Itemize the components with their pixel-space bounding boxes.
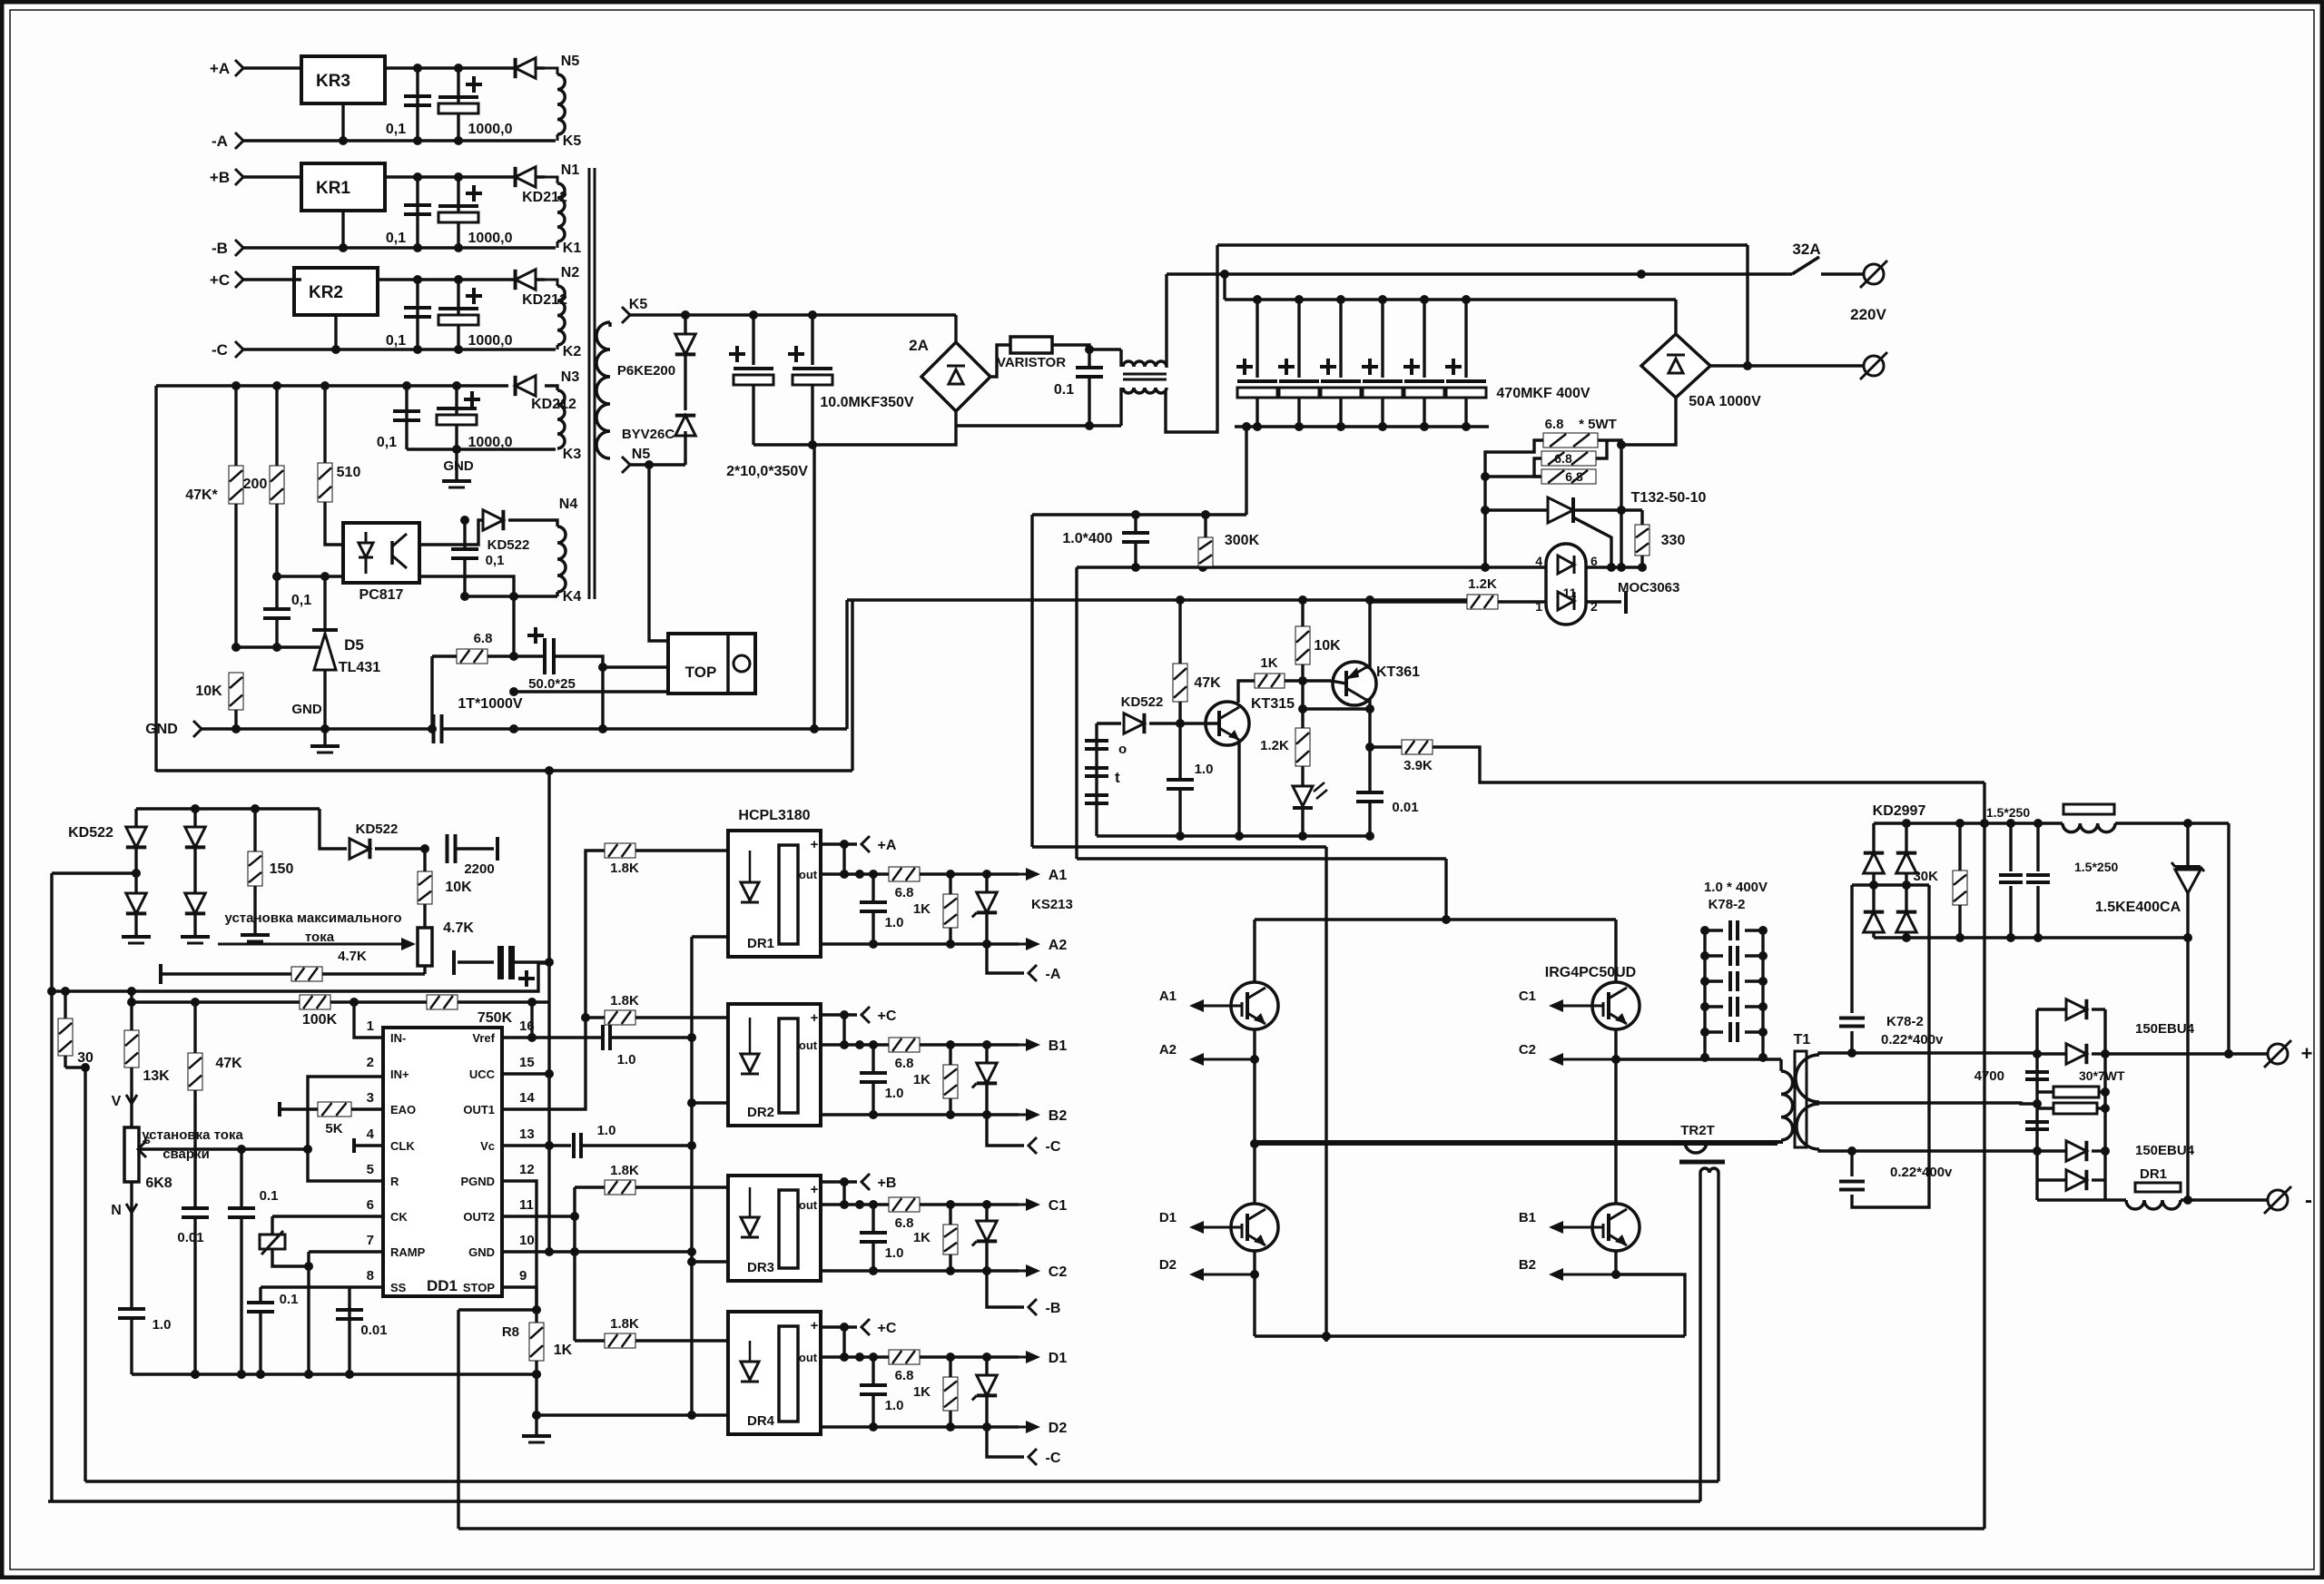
svg-text:0.1: 0.1: [260, 1188, 279, 1204]
svg-text:1.5*250: 1.5*250: [1986, 805, 2030, 820]
svg-text:1.2K: 1.2K: [1260, 738, 1289, 753]
arrow D1: [1019, 1356, 1028, 1359]
wire pin6: [272, 1215, 383, 1217]
transistor KT315: [1206, 702, 1249, 745]
wire pgnd drop: [458, 1308, 537, 1311]
svg-text:A2: A2: [1159, 1042, 1177, 1058]
diode BYV26C: [684, 355, 686, 410]
wire aux dc bus: [136, 807, 320, 810]
svg-text:0.1: 0.1: [1054, 382, 1074, 398]
svg-text:out: out: [799, 1198, 818, 1212]
capacitor 0.1: [240, 1149, 242, 1207]
driver DR3 HCPL3180: [728, 1176, 821, 1281]
wire gate: [920, 1355, 1019, 1358]
svg-text:1.0: 1.0: [885, 1245, 904, 1261]
resistor 13K: [124, 1030, 139, 1067]
svg-text:K5: K5: [563, 133, 582, 149]
gate arrow C2: [1561, 1058, 1616, 1061]
wire: [1253, 1274, 1256, 1336]
wire cap bank top bus: [1225, 298, 1676, 300]
wire: [1223, 274, 1226, 300]
wire stack: [1598, 440, 1621, 445]
resistor 6.8 b: [1541, 451, 1596, 466]
wire out2 feed: [573, 1187, 576, 1341]
input arrow -KR2: [235, 341, 243, 358]
capacitor 1000,0: [457, 280, 459, 349]
wire primary top: [1616, 1058, 1781, 1060]
svg-text:STOP: STOP: [463, 1281, 495, 1294]
wire out DR3: [821, 1203, 889, 1205]
svg-text:510: 510: [337, 465, 361, 480]
wire pin3: [277, 575, 343, 577]
capacitor 1.0*400: [1134, 515, 1137, 532]
capacitor lower: [2025, 1120, 2049, 1124]
svg-text:A1: A1: [1049, 868, 1068, 883]
svg-text:KD522: KD522: [356, 822, 399, 837]
svg-text:KT315: KT315: [1251, 696, 1295, 712]
snubber capacitor: [1705, 1005, 1723, 1008]
wire bottom: [956, 424, 1121, 427]
wire: [385, 175, 545, 178]
svg-text:IRG4PC50UD: IRG4PC50UD: [1545, 965, 1636, 980]
svg-text:6.8: 6.8: [895, 1215, 914, 1231]
wire: [1620, 445, 1622, 567]
snubber capacitor: [1705, 1030, 1723, 1033]
svg-text:0.22*400v: 0.22*400v: [1890, 1165, 1953, 1180]
wire: [514, 690, 668, 693]
wire: [385, 66, 545, 69]
capacitor 470MKF C4: [1381, 300, 1384, 378]
arrow B1: [1019, 1044, 1028, 1047]
diode KD522: [320, 809, 347, 849]
svg-text:1K: 1K: [913, 1384, 931, 1400]
svg-text:47K: 47K: [1194, 675, 1221, 691]
svg-text:+: +: [811, 1010, 819, 1026]
svg-text:+B: +B: [878, 1176, 897, 1191]
wire pin13 vc: [502, 1144, 571, 1146]
terminal bar: [1624, 591, 1628, 614]
svg-text:1000,0: 1000,0: [468, 122, 513, 137]
wire: [325, 502, 343, 545]
resistor 10K: [1301, 600, 1304, 626]
wire: [378, 278, 545, 280]
svg-text:out: out: [799, 1038, 818, 1052]
wire emitter DR4: [821, 1425, 1019, 1428]
resistor 6.8 DR3: [889, 1197, 920, 1212]
svg-text:N3: N3: [561, 369, 580, 385]
capacitor 0.01: [1368, 709, 1371, 792]
wire pin8: [261, 1285, 383, 1288]
wire: [692, 1260, 728, 1263]
svg-text:-C: -C: [212, 341, 228, 359]
wire: [845, 600, 848, 729]
input arrow +KR2: [235, 271, 243, 288]
svg-text:4: 4: [367, 1127, 375, 1142]
winding N5/K5: [545, 68, 557, 74]
svg-text:1.8K: 1.8K: [610, 1163, 639, 1178]
varistor: [990, 345, 1010, 377]
diode pair col1: [134, 809, 137, 935]
wire plus rail: [2227, 823, 2230, 1054]
capacitor 10,0 350V b: [811, 315, 813, 365]
svg-text:N: N: [111, 1203, 122, 1218]
wire: [842, 1327, 845, 1357]
svg-text:D1: D1: [1049, 1351, 1068, 1366]
svg-text:UCC: UCC: [469, 1067, 496, 1081]
wire: [1444, 859, 1447, 920]
wire supply +B: [821, 1180, 857, 1183]
wire gnd bus: [202, 727, 432, 730]
svg-text:V: V: [112, 1094, 122, 1109]
svg-text:470MKF 400V: 470MKF 400V: [1496, 386, 1590, 401]
snubber capacitor: [1705, 979, 1723, 982]
input arrow -KR3: [235, 133, 243, 149]
svg-text:Vc: Vc: [480, 1139, 495, 1153]
svg-text:KD522: KD522: [487, 537, 530, 553]
diode 150EBU4 a1: [2037, 1008, 2066, 1010]
svg-text:тока: тока: [305, 930, 335, 945]
svg-text:1.5*250: 1.5*250: [2074, 860, 2118, 874]
svg-text:K1: K1: [563, 241, 582, 256]
svg-text:t: t: [1115, 769, 1120, 786]
svg-text:0,1: 0,1: [291, 593, 311, 608]
svg-text:N1: N1: [561, 162, 580, 178]
svg-text:6.8: 6.8: [1565, 469, 1583, 484]
wire pin11 out2: [502, 1215, 575, 1217]
zener KS213 DR2: [985, 1045, 988, 1063]
ic DD1: [383, 1028, 502, 1296]
capacitor 470MKF C3: [1339, 300, 1342, 378]
svg-text:0.1: 0.1: [280, 1292, 299, 1307]
svg-text:5: 5: [367, 1162, 374, 1177]
svg-text:220V: 220V: [1850, 306, 1886, 323]
wire gnd pin: [341, 103, 344, 141]
wire: [243, 348, 556, 350]
wire: [649, 465, 668, 641]
svg-text:OUT1: OUT1: [463, 1103, 495, 1117]
resistor 10K: [423, 849, 426, 871]
svg-text:+A: +A: [878, 838, 897, 853]
diode 150EBU4 b2: [2037, 1178, 2066, 1181]
wire: [601, 667, 604, 729]
wire: [50, 873, 53, 1501]
svg-text:0,1: 0,1: [486, 553, 505, 568]
capacitor 470MKF C1: [1256, 300, 1258, 378]
svg-text:10K: 10K: [445, 880, 472, 895]
terminal minus: [2268, 1190, 2288, 1210]
svg-text:1.8K: 1.8K: [610, 1316, 639, 1332]
choke input filter: [1119, 349, 1122, 367]
svg-text:1K: 1K: [1260, 655, 1277, 671]
svg-text:+B: +B: [210, 169, 230, 186]
wire emitter DR3: [821, 1269, 1019, 1272]
svg-text:3: 3: [367, 1090, 374, 1106]
svg-text:K5: K5: [629, 297, 648, 312]
wire: [1324, 847, 1327, 1342]
thyristor gate: [1573, 517, 1611, 567]
svg-text:1K: 1K: [554, 1343, 573, 1358]
winding secondary top: [1796, 1055, 1819, 1102]
svg-text:DR3: DR3: [747, 1260, 774, 1275]
svg-text:D5: D5: [344, 636, 364, 654]
svg-text:10: 10: [519, 1233, 535, 1248]
capacitor 1.0 vc: [572, 1133, 576, 1158]
svg-text:установка максимального: установка максимального: [225, 910, 402, 926]
capacitor 50.0*25: [487, 654, 543, 657]
svg-text:TL431: TL431: [339, 660, 380, 675]
wire block top: [847, 598, 1467, 601]
capacitor 470MKF C6: [1464, 300, 1467, 378]
diode D: [516, 58, 536, 78]
svg-text:DD1: DD1: [427, 1277, 458, 1294]
winding N2/K2: [545, 280, 557, 286]
svg-text:1K: 1K: [913, 1230, 931, 1245]
svg-text:KR1: KR1: [316, 179, 350, 198]
svg-text:B1: B1: [1049, 1038, 1068, 1054]
wire gate: [920, 1043, 1019, 1046]
capacitor 1000,0: [455, 386, 458, 449]
svg-text:0.22*400v: 0.22*400v: [1881, 1032, 1944, 1048]
capacitor 0,1: [416, 68, 419, 141]
svg-text:CK: CK: [390, 1210, 408, 1224]
svg-text:VARISTOR: VARISTOR: [997, 355, 1066, 370]
wire: [753, 410, 956, 445]
svg-text:-C: -C: [1046, 1139, 1061, 1155]
resistor 300K: [1204, 515, 1206, 537]
svg-text:100K: 100K: [302, 1012, 338, 1028]
zener KS213 DR3: [985, 1205, 988, 1221]
svg-text:K2: K2: [563, 344, 582, 359]
capacitor 1.0 DR2: [871, 1045, 874, 1072]
wire plus out: [2105, 1052, 2272, 1055]
wire to in+: [308, 1077, 383, 1149]
svg-text:B1: B1: [1519, 1210, 1536, 1225]
svg-text:-B: -B: [212, 240, 228, 257]
thermostat contact: [1095, 723, 1098, 836]
svg-text:TR2T: TR2T: [1680, 1123, 1715, 1138]
wire: [1245, 427, 1247, 515]
gate arrow A1: [1202, 1005, 1231, 1008]
svg-text:KD212: KD212: [531, 397, 576, 412]
resistor 1.8K DR3: [605, 1180, 635, 1195]
svg-text:D2: D2: [1159, 1257, 1177, 1273]
wire: [851, 600, 853, 771]
svg-text:N4: N4: [559, 497, 578, 512]
resistor 1K DR4: [949, 1357, 951, 1377]
resistor 1K: [1255, 674, 1285, 688]
resistor 6.8 c: [1541, 469, 1596, 484]
svg-text:o: o: [1118, 742, 1127, 757]
wire: [812, 445, 814, 729]
capacitor 1000,0: [457, 68, 459, 141]
svg-text:GND: GND: [468, 1245, 495, 1259]
capacitor 0,1: [263, 607, 290, 611]
svg-text:+: +: [811, 837, 819, 852]
snubber capacitor: [1705, 954, 1723, 957]
svg-text:10K: 10K: [1314, 638, 1341, 654]
zener KS213 DR4: [985, 1357, 988, 1375]
svg-text:0,1: 0,1: [386, 231, 406, 246]
wire long top1: [1217, 243, 1748, 246]
rect block rails: [2035, 1009, 2038, 1200]
wire secondary bottom out: [1852, 1149, 2037, 1152]
diode 150EBU4 b1: [2037, 1149, 2066, 1152]
svg-text:C2: C2: [1519, 1042, 1536, 1058]
svg-text:KT361: KT361: [1376, 664, 1420, 680]
resistor 6.8 DR1: [889, 867, 920, 881]
wire 100K bus: [132, 1000, 300, 1003]
wire out DR1: [821, 872, 889, 875]
bus return 3: [458, 1527, 1984, 1530]
wire: [52, 871, 136, 874]
wire block bottom: [1097, 834, 1370, 837]
svg-text:T1: T1: [1794, 1032, 1811, 1048]
pot 6K8: [124, 1127, 139, 1182]
svg-text:OUT2: OUT2: [463, 1210, 495, 1224]
resistor 6.8 a: [1543, 433, 1598, 448]
rail left: [1253, 920, 1256, 982]
diode 150EBU4 a2: [2037, 1052, 2066, 1055]
arrow C2: [1019, 1270, 1028, 1273]
svg-text:50A 1000V: 50A 1000V: [1689, 394, 1761, 409]
svg-text:BYV26C: BYV26C: [622, 427, 675, 442]
bridge rectifier 2A: [921, 342, 990, 411]
svg-text:0,1: 0,1: [386, 122, 406, 137]
wire gnd pin: [334, 315, 337, 349]
capacitor 470MKF C5: [1423, 300, 1425, 378]
svg-text:KD522: KD522: [68, 825, 113, 841]
svg-text:1.0: 1.0: [1195, 762, 1214, 777]
svg-text:1: 1: [367, 1018, 374, 1034]
svg-text:0.01: 0.01: [177, 1230, 203, 1245]
wire: [423, 966, 426, 974]
svg-text:32A: 32A: [1792, 241, 1820, 258]
pot 4.7K: [423, 904, 426, 928]
wire: [842, 1015, 845, 1045]
svg-text:13: 13: [519, 1127, 535, 1142]
svg-text:RAMP: RAMP: [390, 1245, 426, 1259]
svg-text:-A: -A: [1046, 967, 1061, 982]
diode KD212: [516, 376, 536, 396]
wire mid taps: [1852, 883, 1929, 886]
svg-text:1000,0: 1000,0: [468, 231, 513, 246]
ground: [122, 935, 151, 939]
wire moc top: [1077, 566, 1546, 568]
svg-text:Vref: Vref: [472, 1031, 495, 1045]
svg-text:A1: A1: [1159, 989, 1177, 1004]
svg-text:C1: C1: [1519, 989, 1536, 1004]
svg-text:12: 12: [519, 1162, 535, 1177]
regulator KR1: [301, 163, 385, 211]
svg-text:2: 2: [367, 1055, 374, 1070]
winding N3/K3: [545, 386, 557, 390]
wire supply +A: [821, 842, 857, 845]
svg-text:10K: 10K: [195, 684, 222, 699]
gate arrow D1: [1202, 1226, 1231, 1229]
wire left loop: [154, 386, 157, 772]
svg-text:B2: B2: [1519, 1257, 1536, 1273]
svg-text:1.0: 1.0: [885, 1086, 904, 1101]
resistor R8 1K: [535, 1310, 537, 1323]
gate arrow B1: [1561, 1226, 1592, 1229]
svg-text:KR3: KR3: [316, 72, 350, 91]
resistor 1K DR3: [949, 1205, 951, 1225]
svg-text:15: 15: [519, 1055, 535, 1070]
wire pin7: [309, 1250, 383, 1253]
svg-text:1.0*400: 1.0*400: [1062, 531, 1112, 546]
svg-text:R: R: [390, 1175, 399, 1188]
svg-text:+: +: [811, 1182, 819, 1197]
wire: [1746, 245, 1748, 366]
resistor 1.2K: [1467, 595, 1498, 609]
svg-text:0,1: 0,1: [377, 435, 397, 450]
input arrow +KR3: [235, 60, 243, 76]
bus rect bottom: [1874, 936, 2188, 939]
diode KD522: [1097, 722, 1121, 724]
wire: [65, 1066, 85, 1068]
ground: [241, 933, 270, 937]
svg-text:N5: N5: [632, 447, 651, 462]
wire: [1052, 345, 1121, 349]
svg-text:+C: +C: [878, 1321, 897, 1336]
driver DR1 HCPL3180: [728, 831, 821, 957]
capacitor 0.1: [247, 1301, 274, 1304]
svg-text:B2: B2: [1049, 1108, 1068, 1124]
wire: [842, 1182, 845, 1205]
svg-text:6.8: 6.8: [895, 885, 914, 900]
arrow B2: [1019, 1114, 1028, 1117]
diode col a: [1872, 823, 1875, 938]
wire r8 right: [537, 1413, 692, 1416]
svg-text:0.01: 0.01: [1392, 800, 1418, 815]
wire: [1616, 1274, 1685, 1336]
winding primary K5/N5: [622, 307, 630, 323]
resistor 200: [275, 386, 278, 466]
svg-text:+A: +A: [210, 60, 230, 77]
terminal plus: [2268, 1044, 2288, 1064]
capacitor 0,1: [405, 386, 408, 449]
ground: [323, 729, 326, 744]
wire: [1166, 245, 1217, 432]
tap N: [130, 1182, 133, 1307]
gate arrow C1: [1561, 1005, 1592, 1008]
snubber 0.22*400v bottom: [1850, 1151, 1853, 1176]
resistor 30K: [1958, 823, 1961, 871]
wire: [530, 1002, 533, 1038]
wire bus gnd analog: [132, 1372, 537, 1375]
wire: [1255, 1140, 1781, 1142]
resistor 1.2K: [1301, 681, 1304, 728]
svg-text:D1: D1: [1159, 1210, 1177, 1225]
driver DR2 HCPL3180: [728, 1004, 821, 1126]
ic TOP: [668, 634, 755, 694]
svg-text:14: 14: [519, 1090, 535, 1106]
wire: [1165, 274, 1167, 368]
rail bottom: [1255, 1334, 1685, 1337]
resistor 6.8: [457, 649, 487, 664]
snubber 0.22*400v top: [1850, 885, 1853, 1013]
regulator KR2: [294, 268, 378, 315]
wire gnd pin: [341, 211, 344, 248]
wiper wire: [138, 1141, 146, 1157]
capacitor 2200: [446, 834, 449, 863]
svg-text:13K: 13K: [143, 1068, 170, 1084]
svg-text:1T*1000V: 1T*1000V: [458, 696, 522, 712]
svg-text:GND: GND: [145, 722, 178, 737]
svg-text:K78-2: K78-2: [1709, 897, 1746, 912]
svg-text:6.8: 6.8: [1554, 451, 1572, 466]
wire supply +C: [821, 1325, 857, 1328]
